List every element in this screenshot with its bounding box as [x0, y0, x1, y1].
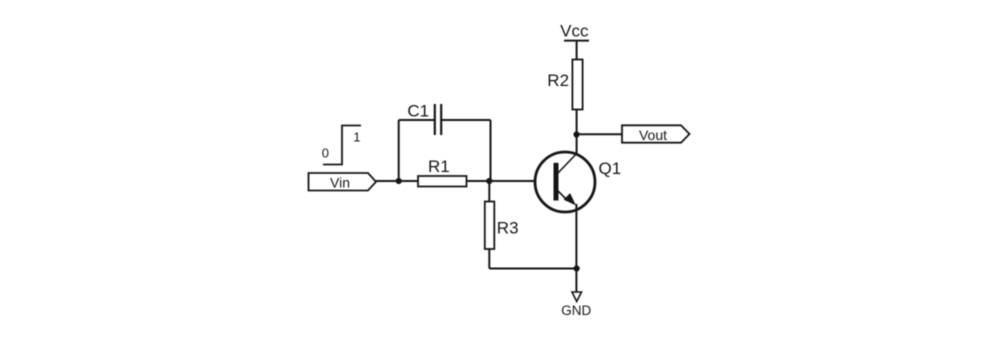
svg-text:0: 0 [322, 146, 329, 161]
svg-text:Vin: Vin [330, 174, 350, 190]
svg-text:1: 1 [353, 130, 360, 145]
svg-text:GND: GND [561, 303, 591, 318]
svg-text:R1: R1 [428, 157, 450, 176]
svg-text:Vout: Vout [639, 127, 667, 143]
svg-text:R2: R2 [547, 71, 569, 90]
svg-text:C1: C1 [407, 102, 429, 121]
svg-text:Q1: Q1 [599, 159, 622, 178]
svg-text:Vcc: Vcc [560, 22, 589, 41]
svg-text:R3: R3 [497, 219, 519, 238]
